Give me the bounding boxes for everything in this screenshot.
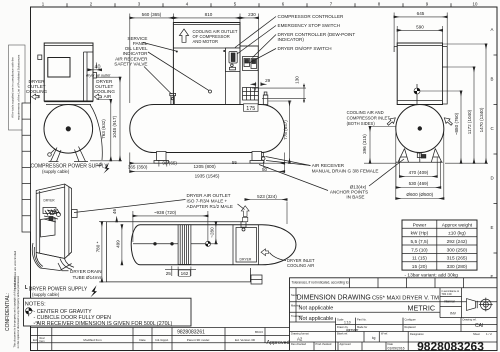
oil level indicator dot and leader xyxy=(148,52,212,93)
svg-text:15 (20): 15 (20) xyxy=(412,264,428,270)
dim 780 xyxy=(95,222,106,282)
hollow arrow left xyxy=(32,94,39,99)
side view feet xyxy=(49,147,89,162)
svg-text:EMERGENCY STOP SWITCH: EMERGENCY STOP SWITCH xyxy=(278,23,341,28)
svg-text:Not applicable: Not applicable xyxy=(299,316,334,322)
tolerances row xyxy=(290,278,498,288)
svg-text:11 (15): 11 (15) xyxy=(412,256,427,262)
svg-text:A2: A2 xyxy=(297,337,303,342)
svg-text:530 (469): 530 (469) xyxy=(409,181,429,186)
svg-text:Des checked: Des checked xyxy=(291,342,307,346)
label air receiver manual drain xyxy=(312,163,379,173)
approval row xyxy=(291,342,405,351)
compressor power supply cable xyxy=(90,105,102,161)
dim 1172 (1040) xyxy=(447,67,475,163)
leader anchor to front foot xyxy=(259,165,328,191)
top view grille xyxy=(178,225,191,265)
svg-text:315 (265): 315 (265) xyxy=(447,256,468,262)
label air receiver safety valve xyxy=(114,56,148,66)
svg-text:dryer air outlet: dryer air outlet xyxy=(86,73,111,77)
side view drain valve xyxy=(48,149,55,156)
name row xyxy=(290,288,498,322)
lightning bolt dryer supply xyxy=(91,285,98,297)
leader to outlet arrow xyxy=(238,204,245,210)
leaders manual drain xyxy=(266,157,311,166)
leader long to detail figure xyxy=(74,200,186,213)
svg-text:1205 (800): 1205 (800) xyxy=(193,164,216,169)
top dim 810 xyxy=(173,12,240,22)
svg-text:TDS 0.00: TDS 0.00 xyxy=(442,293,453,296)
detail tube hatching xyxy=(44,209,60,222)
svg-text:~938 (720): ~938 (720) xyxy=(154,210,177,215)
tank hub end view xyxy=(418,126,422,130)
svg-text:46: 46 xyxy=(112,209,117,215)
svg-text:Part No.: Part No. xyxy=(357,318,367,322)
left margin compliance note box xyxy=(9,45,26,130)
svg-text:BKU3: BKU3 xyxy=(255,330,263,334)
svg-text:MANUAL DRAIN G 3/8 FEMALE: MANUAL DRAIN G 3/8 FEMALE xyxy=(312,168,379,173)
svg-text:40: 40 xyxy=(95,65,101,71)
label cooling air outlet of compressor and motor xyxy=(193,29,238,44)
svg-text:kg: kg xyxy=(372,336,376,340)
dim 40 xyxy=(88,63,102,71)
door open outline rect xyxy=(107,222,251,282)
svg-text:DRYER: DRYER xyxy=(44,199,56,203)
top dim 590 xyxy=(397,25,442,43)
bottom dim Ø600 (Ø500) xyxy=(396,129,444,200)
dryer air outlet up arrow xyxy=(241,206,249,222)
svg-text:DRYER: DRYER xyxy=(240,258,252,262)
center of gravity top view xyxy=(205,241,210,246)
side view dryer air outlet stub xyxy=(93,73,97,79)
svg-text:INDICATOR: INDICATOR xyxy=(123,51,149,56)
center of gravity symbol end view xyxy=(414,84,420,105)
svg-text:~280: ~280 xyxy=(209,227,214,238)
svg-text:TUBE Ø14mm: TUBE Ø14mm xyxy=(73,275,103,280)
svg-text:10: 10 xyxy=(473,1,478,6)
dim ~880 (760) xyxy=(420,91,463,163)
cabinet grille xyxy=(243,88,259,101)
dim 1048 (917) xyxy=(97,77,123,161)
svg-text:810: 810 xyxy=(205,12,213,17)
big drawing number xyxy=(417,340,484,352)
svg-text:Sheet: Sheet xyxy=(473,332,480,336)
svg-text:DIMENSION DRAWING: DIMENSION DRAWING xyxy=(297,294,371,301)
svg-text:Prod checked: Prod checked xyxy=(316,342,332,346)
svg-text:DRYER DRAIN: DRYER DRAIN xyxy=(70,269,102,274)
svg-text:Tolerances, if not indicated,: Tolerances, if not indicated, according … xyxy=(292,281,350,285)
label dryer inlet cooling air xyxy=(287,258,315,268)
svg-text:29: 29 xyxy=(265,78,271,83)
svg-text:METRIC: METRIC xyxy=(408,303,436,312)
detail door opening xyxy=(41,218,56,238)
svg-text:COMPRESSOR INLET: COMPRESSOR INLET xyxy=(347,116,391,121)
label cooling air and compressor inlet xyxy=(347,110,391,126)
svg-text:NOTES:: NOTES: xyxy=(25,301,46,307)
air outlet fitting on tank xyxy=(263,92,268,105)
svg-text:ISO 7-R3/4 MALE +: ISO 7-R3/4 MALE + xyxy=(187,199,228,204)
svg-text:Drawing ref.: Drawing ref. xyxy=(463,318,477,322)
svg-text:CAI: CAI xyxy=(475,323,483,329)
svg-text:Power: Power xyxy=(413,222,427,228)
svg-text:Ø600 (Ø500): Ø600 (Ø500) xyxy=(406,192,433,197)
svg-text:D: D xyxy=(491,176,494,181)
top view centerline and holes xyxy=(133,242,210,245)
svg-text:25: 25 xyxy=(166,271,172,276)
side view cabinet xyxy=(38,43,93,105)
front cabinet xyxy=(173,23,240,105)
svg-text:Approx weight: Approx weight xyxy=(442,222,473,228)
svg-text:CONFIDENTIAL:: CONFIDENTIAL: xyxy=(5,293,11,331)
leader dryer controller xyxy=(253,35,277,58)
label dryer outlet cooling air right xyxy=(94,79,116,99)
svg-text:292 (242): 292 (242) xyxy=(447,239,468,245)
svg-text:ADAPTER R1/2 MALE: ADAPTER R1/2 MALE xyxy=(187,204,233,209)
manual drain valve xyxy=(262,153,265,161)
svg-text:Date: Date xyxy=(388,342,394,346)
svg-text:Init./Appd.: Init./Appd. xyxy=(155,338,169,342)
leader service panel xyxy=(143,43,176,52)
label oil level indicator xyxy=(123,46,149,56)
end view feet xyxy=(396,149,443,163)
svg-text:162: 162 xyxy=(181,271,189,276)
treatment row xyxy=(290,314,336,322)
front tank capsule xyxy=(130,105,285,153)
dim 523 (324) xyxy=(245,194,287,224)
end view drain fitting xyxy=(417,153,426,163)
lightning bolt compressor supply xyxy=(104,163,110,174)
side view tank circle xyxy=(44,105,93,154)
svg-text:5,5 (7,5): 5,5 (7,5) xyxy=(410,239,428,245)
svg-text:Not applicable: Not applicable xyxy=(299,306,334,312)
leader dryer inlet xyxy=(270,253,287,261)
svg-text:1048 (917): 1048 (917) xyxy=(112,115,117,138)
svg-text:300 (250): 300 (250) xyxy=(447,247,468,253)
svg-text:W ref.: W ref. xyxy=(381,332,388,336)
safety valve fitting xyxy=(170,93,176,104)
end view tank circle xyxy=(396,105,444,153)
svg-text:- 00: - 00 xyxy=(34,320,40,324)
svg-text:IN BASE: IN BASE xyxy=(346,195,364,200)
top view tank capsule xyxy=(131,225,296,265)
dim 396 (315) xyxy=(362,127,396,164)
label dryer air outlet xyxy=(86,73,111,77)
svg-text:Scale: Scale xyxy=(337,318,344,322)
svg-text:- AIR RECEIVER DIMENSION IS GI: - AIR RECEIVER DIMENSION IS GIVEN FOR 50… xyxy=(34,321,173,327)
svg-text:Parent 3D model: Parent 3D model xyxy=(187,338,210,342)
right border letters xyxy=(491,27,495,328)
svg-text:Modified from: Modified from xyxy=(83,338,102,342)
svg-text:E: E xyxy=(491,225,494,230)
dims 25 and 162 xyxy=(165,266,196,276)
dim 499 xyxy=(115,225,122,265)
svg-text:9828083261: 9828083261 xyxy=(177,329,205,335)
dim 29 xyxy=(251,78,271,91)
front feet xyxy=(154,152,264,164)
top dim 645 xyxy=(394,11,447,46)
svg-text:DRYER AIR OUTLET: DRYER AIR OUTLET xyxy=(187,193,231,198)
svg-text:590: 590 xyxy=(416,25,424,30)
svg-text:9828083263: 9828083263 xyxy=(417,340,484,352)
svg-text:01/09/2016: 01/09/2016 xyxy=(388,347,405,351)
left margin ladder table xyxy=(22,103,31,232)
svg-text:COMPRESSOR CONTROLLER: COMPRESSOR CONTROLLER xyxy=(278,14,345,19)
compressor controller panel xyxy=(226,48,241,72)
svg-text:560 (365): 560 (365) xyxy=(142,12,162,17)
bottom dim baseline row1 xyxy=(128,153,285,173)
svg-text:Approved: Approved xyxy=(267,340,290,346)
svg-text:INV: INV xyxy=(450,312,457,316)
svg-text:C: C xyxy=(491,126,494,131)
svg-text:Blank ref.: Blank ref. xyxy=(337,332,348,336)
svg-text:1470 (1340): 1470 (1340) xyxy=(479,107,484,132)
dim 1470 (1340) xyxy=(443,44,489,163)
svg-text:(supply cable): (supply cable) xyxy=(32,292,60,297)
svg-text:523 (324): 523 (324) xyxy=(257,194,277,199)
svg-text:±10 (kg): ±10 (kg) xyxy=(448,231,466,237)
cooling inlet arrow right xyxy=(442,116,453,127)
dim 130 xyxy=(252,76,306,103)
label dryer air outlet iso xyxy=(187,193,233,209)
svg-text:AND MOTOR: AND MOTOR xyxy=(193,39,219,44)
svg-text:1935 (1545): 1935 (1545) xyxy=(195,173,220,178)
svg-text:230: 230 xyxy=(248,12,256,17)
svg-text:499: 499 xyxy=(115,240,120,248)
svg-text:This document is the property: This document is the property and copyri… xyxy=(13,276,17,347)
svg-text:kW (Hp): kW (Hp) xyxy=(411,231,429,237)
svg-text:Made for: Made for xyxy=(357,325,367,329)
svg-text:55: 55 xyxy=(232,160,238,165)
svg-text:Ed. Version 3D: Ed. Version 3D xyxy=(235,338,256,342)
svg-text:COOLING AIR AND: COOLING AIR AND xyxy=(347,110,384,115)
dim ~938 (720) xyxy=(133,210,208,242)
svg-text:DRYER ON/OFF SWITCH: DRYER ON/OFF SWITCH xyxy=(278,46,332,51)
svg-text:645: 645 xyxy=(417,11,425,16)
svg-text:Item: Item xyxy=(40,339,45,343)
svg-text:778 (647): 778 (647) xyxy=(283,120,288,140)
projection symbol box xyxy=(462,288,493,318)
top ruler numbers xyxy=(42,1,478,6)
svg-text:(supply cable): (supply cable) xyxy=(42,169,70,174)
bottom right bracket xyxy=(251,275,262,284)
top ruler ticks xyxy=(67,3,451,7)
svg-text:internal: internal xyxy=(444,300,455,304)
svg-text:Designation: Designation xyxy=(410,332,424,336)
label service panel xyxy=(127,36,148,46)
leader anchor to end view foot xyxy=(369,159,404,186)
dryer module xyxy=(240,46,258,105)
svg-text:A: A xyxy=(491,27,494,32)
left margin small print xyxy=(13,250,17,289)
right border ticks xyxy=(494,55,498,303)
svg-text:175: 175 xyxy=(246,106,255,112)
svg-text:B: B xyxy=(491,77,494,82)
drawing format row xyxy=(291,332,492,351)
leader emergency stop xyxy=(237,26,276,55)
end view side flap xyxy=(443,47,448,105)
end view cabinet xyxy=(394,43,442,105)
detail tank arc xyxy=(32,243,43,268)
svg-text:1 / 2: 1 / 2 xyxy=(486,332,492,336)
svg-text:not be copied or disclosed to: not be copied or disclosed to any third … xyxy=(16,275,20,348)
bottom dim baseline row2 1935 xyxy=(130,172,285,179)
label dryer power supply xyxy=(26,285,88,297)
svg-text:COOLING AIR: COOLING AIR xyxy=(287,263,314,268)
svg-text:396 (315): 396 (315) xyxy=(362,134,367,154)
svg-text:1172 (1040): 1172 (1040) xyxy=(467,109,472,134)
cabinet screws xyxy=(176,50,225,53)
svg-text:Approved: Approved xyxy=(340,342,352,346)
lower rows xyxy=(290,318,498,351)
leader compressor controller xyxy=(235,17,276,48)
svg-text:98 (65): 98 (65) xyxy=(162,161,177,166)
top dim 560 (365) xyxy=(130,12,174,103)
dim 46 xyxy=(112,209,117,222)
title block outline xyxy=(290,278,498,351)
svg-text:~880 (760): ~880 (760) xyxy=(454,112,459,135)
dryer inlet arrow xyxy=(261,249,269,256)
svg-text:470 (409): 470 (409) xyxy=(409,170,429,175)
svg-text:763 (632): 763 (632) xyxy=(101,119,106,139)
top view dryer section xyxy=(233,222,259,265)
dryer controller panel xyxy=(243,57,259,71)
svg-text:Ed.: Ed. xyxy=(33,338,38,342)
dim 175 box xyxy=(244,104,259,112)
material row xyxy=(290,303,441,312)
hollow arrow right xyxy=(94,94,101,99)
cooling inlet arrow left xyxy=(386,116,397,127)
detail fittings xyxy=(43,208,77,218)
labels controller list xyxy=(278,14,356,51)
svg-text:Configure: Configure xyxy=(405,318,417,322)
bottom dim 530 (469) xyxy=(396,161,441,189)
svg-text:AIR: AIR xyxy=(104,94,112,99)
svg-text:INDICATOR): INDICATOR) xyxy=(278,37,305,42)
svg-text:Replaced: Replaced xyxy=(405,325,417,329)
detail cables xyxy=(60,259,74,270)
svg-text:Drawing format: Drawing format xyxy=(291,332,309,336)
leader safety valve xyxy=(144,67,172,95)
cooling air outlet up arrow xyxy=(179,29,188,42)
svg-text:780 *: 780 * xyxy=(95,241,100,252)
dim 778 (647) xyxy=(268,101,292,163)
svg-text:7,5 (10): 7,5 (10) xyxy=(411,247,428,253)
label dryer outlet cooling air left xyxy=(26,79,48,99)
right info box xyxy=(440,288,497,318)
svg-text:Date: Date xyxy=(139,338,146,342)
label anchor points xyxy=(330,184,368,199)
detail base xyxy=(36,252,71,271)
confidential note xyxy=(5,275,20,348)
svg-text:330 (280): 330 (280) xyxy=(447,264,468,270)
bottom dim 470 (409) xyxy=(400,158,438,178)
svg-text:requirements of the List of Pr: requirements of the List of Prohibited S… xyxy=(17,54,21,120)
dim ~280 xyxy=(209,222,218,244)
svg-text:All e-tools supplied are in co: All e-tools supplied are in compliance w… xyxy=(11,57,15,118)
svg-text:SAFETY VALVE: SAFETY VALVE xyxy=(114,62,147,67)
label compressor power supply xyxy=(31,163,109,175)
svg-text:130: 130 xyxy=(295,76,300,84)
svg-text:C55* MAXI DRYER V. TM: C55* MAXI DRYER V. TM xyxy=(372,295,439,301)
top dim 230 xyxy=(240,12,258,46)
detail cabinet perspective xyxy=(36,184,71,259)
svg-text:(BOTH SIDES): (BOTH SIDES) xyxy=(347,121,376,126)
svg-text:1:10: 1:10 xyxy=(344,321,351,325)
leader dryer onoff xyxy=(249,49,276,64)
svg-text:AIR RECEIVER: AIR RECEIVER xyxy=(312,163,345,168)
dim 763 (632) xyxy=(90,100,113,161)
label dryer drain tube xyxy=(58,263,103,280)
svg-text:365 (350): 365 (350) xyxy=(128,164,148,169)
